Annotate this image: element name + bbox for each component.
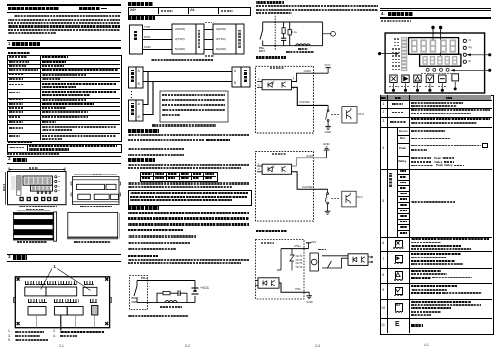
lower display box [31, 185, 53, 191]
buttons row: 6 dark squares [19, 197, 57, 201]
varistor branch [289, 22, 291, 30]
extension lines [204, 29, 213, 31]
header rule bottom [7, 12, 121, 14]
notes under sensor table [128, 182, 249, 184]
callout leader lines bottom [36, 315, 38, 328]
bottom terminal strips [28, 307, 46, 316]
capacitor [177, 290, 179, 296]
bullet AC relay protection [256, 1, 284, 3]
terminal tiny label rows [25, 281, 46, 285]
caption RS-485 [152, 124, 216, 126]
right wire to battery [194, 281, 196, 303]
main housing rect [15, 277, 109, 328]
bottom wire [292, 172, 328, 189]
dashed instrument box [256, 66, 314, 133]
LED bar column [17, 176, 22, 196]
switch contact [136, 281, 138, 287]
header row [381, 95, 492, 100]
lower opto inside dashed box [258, 278, 279, 288]
48mm left dimension label [3, 183, 5, 191]
page number 3-3 [315, 345, 320, 348]
row11 button icon [395, 321, 400, 328]
1.1 subhead [8, 52, 30, 54]
instrument box [130, 25, 143, 54]
6 buttons [390, 74, 459, 83]
row10 button icon [395, 303, 404, 312]
small circles under display [37, 192, 39, 194]
dashed instrument box [130, 276, 148, 310]
right unit LEDs [55, 176, 57, 178]
note line [7, 153, 59, 155]
bullet switch output equivalent [256, 230, 287, 232]
row numbers [382, 103, 384, 106]
PLC transistor box [342, 191, 356, 207]
bottom callout dots with stems [392, 87, 457, 92]
header rule top [7, 4, 121, 5]
dashed boundary vertical [274, 16, 276, 50]
right callout 2 [488, 69, 491, 72]
bus lines [143, 71, 232, 73]
header labels [381, 97, 387, 99]
top terminal strips [25, 287, 46, 296]
GND bottom [308, 292, 310, 296]
battery VDC [192, 287, 199, 289]
zener diode branch [291, 249, 293, 255]
sensor terminal table [140, 172, 218, 183]
TXD RXD GND labels [144, 26, 150, 29]
right pins and wires [292, 73, 329, 81]
table 1.1 values [42, 56, 68, 58]
right unit LEDs [463, 39, 466, 63]
row7 button icon [395, 255, 404, 264]
LED bar squares [402, 38, 407, 71]
note box [160, 91, 228, 122]
row1 [392, 103, 403, 105]
relay coil on bottom wire [296, 44, 310, 46]
terminal rects [77, 184, 105, 189]
host box [232, 67, 241, 87]
heading 4 basic operation [380, 7, 491, 10]
upper display box [409, 38, 459, 55]
side view drawing [13, 211, 56, 241]
instrument vertical label [134, 31, 137, 40]
heading 3.2 serial wiring [128, 16, 155, 20]
row6 button icon [395, 240, 404, 249]
intro paragraph [14, 15, 120, 17]
instrument 1 [129, 67, 137, 88]
wiring legend [8, 330, 11, 333]
table 1.2 one row [7, 144, 122, 154]
cutout rect drawing [68, 212, 120, 238]
row5: rotated label + code cells [389, 173, 392, 187]
lower display box [420, 54, 461, 66]
GND symbol at top [326, 150, 328, 158]
rear view drawing [71, 175, 121, 205]
sub dividers rows 4,5 [396, 127, 399, 236]
front view outer rect [8, 172, 67, 205]
note box text [162, 94, 225, 96]
junction dots [147, 280, 149, 282]
row separators [380, 107, 492, 110]
instrument N [129, 100, 137, 121]
page number 3-1 [59, 345, 64, 348]
button glyphs [391, 76, 444, 81]
callout 1 lines [41, 269, 91, 291]
dashed instrument box [256, 240, 305, 300]
contacts [322, 256, 331, 268]
PLC transistor box [342, 107, 357, 123]
outer panel box [385, 33, 485, 93]
right callout 1 [488, 53, 491, 56]
phototransistor inside [282, 82, 286, 88]
right wire [322, 22, 324, 46]
resistor [163, 291, 170, 294]
caption RS-232 [151, 59, 213, 61]
heading 3.5 switch interface [128, 206, 159, 210]
AC source [323, 33, 331, 35]
top wire [263, 21, 323, 23]
dashed instrument box [256, 151, 314, 221]
7-seg digits lower [422, 56, 457, 65]
ground [325, 125, 331, 127]
heading 3.1 power wiring [128, 2, 153, 6]
external opto box [348, 254, 368, 266]
from instrument N up to the bus [143, 72, 153, 115]
dry contact switch [327, 110, 329, 112]
heading 3 接线 [7, 253, 121, 256]
1.2 subhead [8, 141, 32, 143]
top wire PW+ [281, 248, 309, 250]
LED symbol inside [268, 82, 272, 87]
RC snubber branch [157, 293, 163, 302]
row3 [390, 121, 406, 123]
24V stub [308, 243, 310, 249]
RC branch [283, 22, 285, 28]
LED bar labels [394, 38, 400, 39]
bottom wire [263, 45, 323, 47]
unit LED labels [469, 39, 471, 42]
bullet switch input equivalent [256, 56, 286, 58]
heading 3.4 sensor wiring [128, 158, 155, 162]
heading 3.3 analog output [128, 129, 159, 133]
4 small round buttons [426, 68, 449, 71]
AC circuit caption [286, 51, 314, 53]
bottom wire [137, 302, 195, 304]
note under circuit [128, 315, 188, 317]
left pin stubs [257, 81, 262, 83]
table 1.1 basic parameters [7, 55, 122, 142]
LED labels [11, 177, 16, 189]
title GGT968 force display controller [8, 7, 59, 11]
row9 button icon [395, 287, 404, 296]
small button label row [421, 73, 451, 74]
left callout [378, 52, 381, 55]
switch branch left [262, 22, 264, 30]
button labels [389, 86, 399, 87]
corner screws [17, 278, 109, 325]
row4 sub-rows [399, 130, 408, 133]
warning bordered box [128, 190, 252, 206]
upper display box [23, 176, 53, 185]
connector pin labels [175, 28, 185, 31]
heading 1 技术规格 [7, 39, 121, 42]
page number 4-1 [424, 344, 429, 347]
optocoupler box [262, 80, 291, 90]
top wire to GND [292, 158, 327, 166]
front view left dimension [5, 172, 7, 205]
relay coil box with circle [310, 253, 318, 271]
captions under drawings [19, 206, 57, 208]
bullet DC relay protection [128, 255, 158, 257]
table 1.1 row texts: labels [9, 56, 27, 58]
row8 button icon [395, 271, 404, 280]
heading 2 安装 [7, 155, 121, 158]
relay coil bumps on bottom wire [165, 301, 177, 303]
ground bottom [325, 210, 331, 212]
top wire [137, 280, 195, 282]
power terminal table [128, 7, 251, 16]
wires to connector [143, 29, 173, 31]
wires to external opto [334, 256, 348, 268]
page number 3-2 [185, 345, 190, 348]
VCC stub [327, 68, 329, 74]
top dim label [74, 174, 117, 176]
top callout dots and stems [431, 26, 434, 29]
4.1 subhead [381, 20, 411, 22]
clips [71, 182, 121, 196]
vertical dividers [386, 95, 389, 333]
optocoupler box [262, 164, 291, 174]
7-seg digits upper [411, 40, 456, 53]
DB9 female box [172, 24, 196, 54]
front view dimension line 96mm [9, 169, 65, 171]
dry contact switch [327, 193, 329, 195]
DB9 male box [213, 24, 236, 54]
edge notches [14, 298, 112, 303]
wire from lower opto to PW- rail [279, 283, 309, 292]
row2 [392, 112, 403, 114]
